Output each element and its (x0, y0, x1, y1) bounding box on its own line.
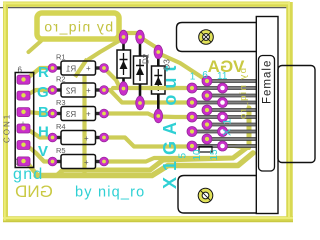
svg-text:CON1: CON1 (3, 113, 12, 143)
svg-text:R4: R4 (56, 122, 66, 131)
svg-text:R1: R1 (65, 65, 76, 74)
resistor R5 (53, 146, 103, 169)
svg-text:H: H (38, 124, 49, 141)
connector X1 pins row2 (208, 80, 257, 141)
pad R3 right (100, 109, 109, 118)
svg-text:5: 5 (177, 153, 188, 159)
pad R4 right (100, 133, 109, 142)
pad CON1-5 (17, 91, 30, 100)
connector X1 top mounting flange (177, 23, 258, 52)
wire CON1 pin5 to R2 (26, 90, 51, 95)
wire ground bus bottom upper (57, 108, 249, 176)
svg-text:10: 10 (192, 149, 203, 161)
label G (37, 84, 49, 101)
label CON1 vertical (3, 113, 12, 143)
svg-text:R5: R5 (56, 146, 66, 155)
pads X1 right column (218, 83, 228, 151)
connector female label box (259, 56, 275, 172)
svg-text:R: R (38, 64, 49, 81)
pad R2 right (100, 86, 109, 95)
wire R4 to VGA row5 (104, 138, 190, 147)
svg-text:by niq_ro: by niq_ro (75, 185, 145, 201)
svg-text:6: 6 (202, 70, 208, 81)
svg-text:6: 6 (18, 66, 23, 75)
label pin 15 (209, 149, 220, 161)
label R (38, 64, 49, 81)
svg-text:+: + (86, 64, 91, 73)
svg-text:V: V (38, 143, 48, 160)
resistor R2 (53, 75, 103, 98)
label V (38, 143, 48, 160)
silkscreen box top with mirrored text (37, 13, 119, 39)
pad D2 top (136, 30, 145, 44)
label H (38, 124, 49, 141)
label CON1 pin1 (15, 158, 20, 167)
wire top-left stub (29, 41, 42, 52)
pad R2 left (48, 86, 57, 95)
svg-text:1: 1 (190, 72, 196, 83)
wire CON1 pin3 to R4 (26, 128, 51, 137)
svg-text:D2: D2 (142, 53, 151, 64)
label pin 11 (217, 71, 228, 82)
svg-text:D3: D3 (162, 59, 172, 70)
wire ground spur to VGA pin (226, 146, 249, 148)
pad D1 bottom (119, 82, 128, 96)
wire ground bus bottom lower (36, 153, 253, 176)
wire R5 to VGA mid bottom (104, 158, 230, 162)
svg-text:G: G (37, 84, 49, 101)
mounting hole bottom (198, 188, 212, 202)
connector CON1 outline (15, 73, 34, 168)
pad R1 left (48, 64, 57, 73)
resistor R3 (53, 98, 103, 121)
svg-text:GND: GND (15, 182, 53, 201)
connector X1 bottom mounting flange (178, 176, 257, 214)
wire R1 to D1 to VGA row1 (104, 68, 190, 88)
connector X1 pins row1 long (193, 87, 257, 148)
svg-text:X1GA out: X1GA out (160, 60, 180, 189)
svg-text:+: + (84, 158, 89, 167)
svg-text:+: + (86, 110, 91, 119)
svg-text:by niq_ro: by niq_ro (43, 19, 113, 35)
wire CON1 pin6 to R1 (26, 68, 51, 79)
wire diode top D2-D3 (143, 39, 157, 48)
connector shell (278, 66, 315, 163)
pad D3 top (154, 45, 163, 59)
pads X1 left column (187, 83, 197, 151)
pad R3 left (48, 109, 57, 118)
pad R5 left (48, 157, 57, 166)
svg-text:gnd: gnd (13, 166, 44, 183)
wire CON1 pin1 gnd (26, 161, 38, 175)
wire diode top bridge D1-D2 (123, 31, 140, 35)
pad CON1-4 (17, 108, 30, 117)
svg-text:15: 15 (209, 149, 220, 161)
svg-text:R2: R2 (56, 75, 66, 84)
svg-text:R3: R3 (56, 98, 66, 107)
label by niq_ro (75, 185, 145, 201)
pad D1 top (119, 30, 128, 44)
pads X1 middle column (202, 76, 212, 144)
pin1 marker rectangle (199, 147, 212, 153)
wire R3 to D3 to VGA row3 (104, 114, 190, 118)
svg-text:+: + (84, 134, 89, 143)
label D3 vertical (162, 59, 172, 70)
label pin 5 (177, 153, 188, 159)
svg-text:+: + (86, 86, 91, 95)
pad R1 right (100, 64, 109, 73)
wire over D3 body (149, 86, 167, 90)
pad R4 left (48, 133, 57, 142)
wire CON1 pin2 to R5 (26, 145, 51, 162)
svg-text:R2: R2 (65, 87, 76, 96)
diode D2 (134, 41, 148, 98)
label pin 6 (202, 70, 208, 81)
svg-text:X1: X1 (222, 115, 234, 136)
wire vertical bus through resistors (85, 38, 124, 175)
label gnd (13, 166, 44, 183)
svg-text:R1: R1 (56, 53, 66, 62)
wire D3 top to VGA pin6 (160, 54, 203, 78)
label niq_ro vertical mirrored (238, 68, 249, 121)
mounting hole top (199, 30, 213, 44)
label CON1 pin6 (18, 66, 23, 75)
label B (38, 104, 49, 121)
diode D3 (152, 56, 166, 111)
pad CON1-6 (17, 75, 30, 84)
pad D3 bottom (154, 109, 163, 123)
svg-text:1: 1 (15, 158, 20, 167)
label GND mirrored (15, 182, 53, 201)
label VGA mirrored (208, 57, 245, 76)
label X1 vertical (222, 115, 234, 136)
pad CON1-1 (17, 157, 30, 166)
svg-text:B: B (38, 104, 49, 121)
label D2 vertical (142, 53, 151, 64)
resistor R4 (53, 122, 103, 145)
svg-text:Female: Female (262, 60, 274, 104)
pad CON1-3 (17, 124, 30, 133)
svg-text:11: 11 (217, 71, 228, 82)
wire R2 to D2 to VGA row2 (104, 90, 190, 103)
label pin 1 (190, 72, 196, 83)
wire CON1 pin4 to R3 (26, 112, 51, 114)
pad D2 bottom (136, 96, 145, 110)
svg-text:R3: R3 (65, 110, 76, 119)
dimension line top (0, 7, 288, 9)
label pin 10 (192, 149, 203, 161)
diode D1 (117, 41, 131, 85)
svg-text:by niq_ro: by niq_ro (238, 68, 249, 121)
label X1GA out vertical (160, 60, 180, 189)
pad CON1-2 (17, 141, 30, 150)
connector X1 face rectangle (256, 17, 278, 214)
resistor R1 (53, 53, 103, 78)
pad R5 right (100, 157, 109, 166)
